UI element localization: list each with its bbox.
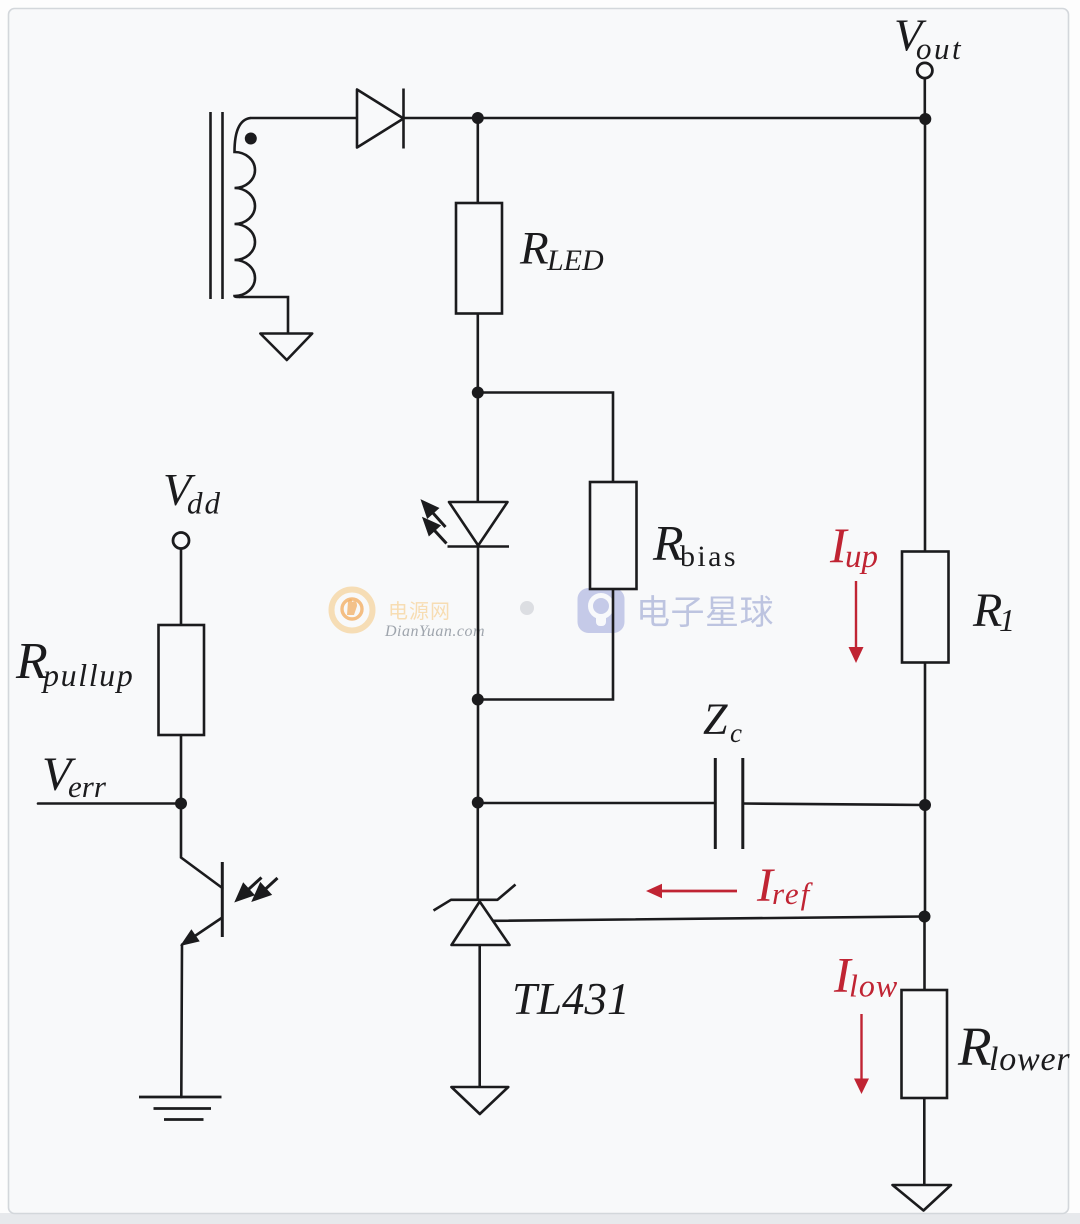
svg-text:R: R [957,1016,992,1077]
svg-text:out: out [916,31,963,66]
photo arrow 2 into Q1 [254,878,278,900]
svg-text:Z: Z [703,695,728,744]
svg-text:DianYuan.com: DianYuan.com [384,623,485,640]
watermark faint dot [520,601,534,615]
node at ref line / divider [919,911,931,923]
label Zc [703,695,742,749]
svg-text:up: up [845,539,878,575]
current arrow Iref [646,884,737,898]
label Rpullup [15,633,134,693]
wire: RLED to LED node [476,314,479,393]
svg-text:LED: LED [546,244,604,277]
label RLED [519,223,604,278]
current arrow Ilow [854,1014,869,1094]
wire: LED anode lead [476,393,479,503]
earth ground (phototransistor emitter) [139,1097,222,1120]
wire: branch to Rbias [478,393,613,483]
resistor R_pullup [159,625,205,735]
label R1 [972,584,1015,638]
node at Zc branch [472,797,484,809]
svg-text:lower: lower [989,1041,1070,1078]
diode D1 [357,89,404,149]
ground (divider bottom) [893,1185,952,1211]
wire: Vout terminal lead [923,79,926,119]
label Vout [894,10,963,67]
svg-text:R: R [972,584,1002,637]
svg-text:电源网: 电源网 [388,600,451,623]
resistor R_bias [590,482,637,589]
transformer T1 secondary winding [235,118,255,297]
phototransistor Q1 body bar [221,862,224,937]
watermark DianYuan logo [332,590,486,641]
watermark dianzixingqiu logo [578,588,775,633]
wire: Vdd lead [180,549,183,626]
label TL431 [512,974,630,1024]
wire: Rlower to ground [923,1098,926,1185]
wire: Zc right lead [743,804,925,806]
wire: Rbias bottom to LED cathode node [478,589,613,700]
wire: Rpullup to Verr node [180,735,183,804]
resistor R_LED [456,203,502,314]
svg-text:bias: bias [680,540,738,573]
wire: diode to Vout rail [404,117,926,120]
label Rlower [957,1016,1070,1078]
label Verr [42,748,107,804]
label Ilow [833,947,898,1004]
svg-text:ref: ref [772,876,814,911]
svg-text:dd: dd [187,486,222,521]
terminal Vdd [173,533,189,549]
wire: TL431 anode to ground [478,945,481,1087]
LED emission arrow 2 [425,520,447,544]
svg-text:err: err [68,769,107,804]
wire: Verr input [38,802,181,805]
wire: Zc left lead [478,802,716,805]
svg-text:TL431: TL431 [512,974,630,1024]
wire: LED cathode down to Zc branch node [477,547,480,803]
transformer polarity dot [245,133,257,145]
wire: ref node down to Rlower [923,917,926,991]
wire: node to RLED [476,118,479,203]
svg-text:R: R [519,223,549,275]
node at RLED bottom [472,387,484,399]
wire: R1 to Zc node [924,663,927,806]
wire: transformer secondary to ground [240,297,288,334]
phototransistor Q1 emitter with arrow [183,918,222,945]
node at Verr [175,798,187,810]
ground (TL431 anode) [451,1087,508,1114]
node at Vout rail top [919,113,931,125]
optocoupler LED [448,502,510,547]
label Iup [829,517,878,575]
svg-text:1: 1 [999,602,1015,638]
LED emission arrow 1 [423,502,446,527]
wire: Zc branch node to TL431 cathode [476,803,479,900]
svg-text:c: c [730,718,742,748]
wire: TL431 ref line to divider node [493,917,925,921]
transformer T1 core [211,112,223,299]
node at Zc / divider [919,799,931,811]
label Rbias [652,515,738,574]
wire: Verr node to phototransistor collector [181,804,222,889]
label Iref [756,859,814,912]
current arrow Iup [849,581,864,663]
resistor R_lower [902,990,948,1098]
label Vdd [163,464,222,521]
terminal Vout [917,63,932,78]
wire: Vout rail down to R1 [924,118,927,552]
svg-text:pullup: pullup [41,657,134,693]
wire: top rail transformer to diode [251,117,358,120]
ground (transformer secondary) [260,334,312,361]
svg-text:low: low [849,968,898,1004]
node at diode output [472,112,484,124]
photo arrow 1 into Q1 [237,878,262,901]
node at LED cathode / Rbias junction [472,694,484,706]
wire: Zc node to ref node [924,805,927,917]
wire: phototransistor emitter to ground [180,945,183,1098]
svg-text:R: R [652,515,684,571]
TL431 U1 [434,885,516,946]
capacitor Zc plates [715,758,743,849]
resistor R1 [902,552,949,663]
svg-text:电子星球: 电子星球 [636,594,774,632]
